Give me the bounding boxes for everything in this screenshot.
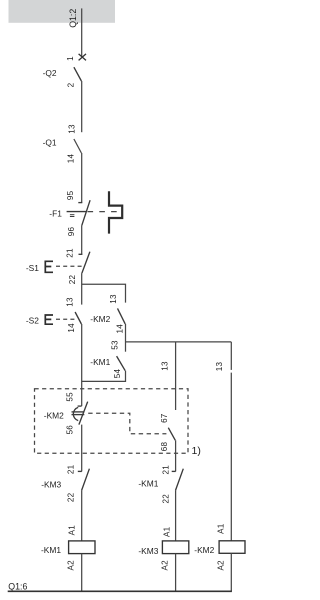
svg-text:56: 56 <box>66 425 75 435</box>
svg-text:Q1:2: Q1:2 <box>68 9 78 28</box>
wire timed contact down to KM3 NC <box>81 425 83 472</box>
wire KM1 coil to bottom rail <box>81 554 83 592</box>
stop pushbutton S1 NC contact 21-22 <box>79 252 90 273</box>
svg-text:22: 22 <box>161 494 170 504</box>
svg-text:21: 21 <box>67 464 76 474</box>
contactor coil KM1 <box>69 541 95 554</box>
wire KM3 coil to bottom rail <box>175 554 177 592</box>
svg-text:21: 21 <box>66 248 75 258</box>
svg-text:95: 95 <box>66 190 75 200</box>
svg-text:22: 22 <box>67 492 76 502</box>
svg-text:14: 14 <box>67 154 76 164</box>
svg-text:55: 55 <box>66 392 75 402</box>
svg-text:13: 13 <box>67 124 76 134</box>
svg-text:-KM1: -KM1 <box>41 545 61 555</box>
thermal relay NC contact F1 95-96 <box>67 200 91 225</box>
svg-text:67: 67 <box>160 413 169 423</box>
svg-text:A2: A2 <box>161 560 170 571</box>
start pushbutton S2 NO contact 13-14 <box>75 312 81 324</box>
contactor NC interlock KM1 21-22 <box>172 469 184 491</box>
svg-text:A2: A2 <box>67 560 76 571</box>
svg-text:22: 22 <box>68 275 77 285</box>
timed aux contact 67-68 <box>168 428 175 441</box>
plug marker X (terminal 1 of Q2) <box>79 54 86 61</box>
bottom return rail <box>8 590 232 592</box>
svg-text:-KM1: -KM1 <box>90 357 110 367</box>
svg-text:53: 53 <box>111 340 120 350</box>
timed contact KM2 55-56 <box>72 402 88 425</box>
dashed function box <box>35 389 189 454</box>
svg-text:-KM3: -KM3 <box>138 546 158 556</box>
svg-text:-F1: -F1 <box>49 208 62 218</box>
wire Q2 to Q1 <box>81 81 83 132</box>
svg-text:1: 1 <box>66 56 75 61</box>
svg-text:A1: A1 <box>163 526 172 537</box>
wire KM1 NC to KM3 coil <box>175 490 177 541</box>
dashed actuator link S2 <box>56 318 78 320</box>
wire KM2 coil to bottom rail <box>230 553 232 591</box>
breaker aux contact Q1 13-14 <box>74 139 82 153</box>
wire S2 down to timed contact (junction at 381) <box>81 324 83 406</box>
svg-text:-Q1: -Q1 <box>43 137 57 147</box>
svg-text:Q1:6: Q1:6 <box>8 581 27 591</box>
wire Q1 to F1 <box>81 153 83 203</box>
svg-text:13: 13 <box>109 294 118 304</box>
svg-text:14: 14 <box>116 324 125 334</box>
contactor coil KM2 <box>219 541 245 554</box>
svg-text:-Q2: -Q2 <box>43 68 57 78</box>
wire KM3 NC to KM1 coil <box>81 490 83 541</box>
breaker contact Q2 <box>74 67 82 81</box>
svg-text:54: 54 <box>113 369 122 379</box>
actuator E of S2 <box>45 315 53 324</box>
svg-text:A1: A1 <box>67 525 76 536</box>
dashed link F1 contact to trip element <box>88 211 121 213</box>
svg-text:21: 21 <box>161 465 170 475</box>
svg-text:-S1: -S1 <box>26 263 39 273</box>
wire branch to coil columns <box>126 341 232 343</box>
svg-text:14: 14 <box>67 323 76 333</box>
svg-text:-KM2: -KM2 <box>194 545 214 555</box>
svg-text:-KM2: -KM2 <box>44 411 64 421</box>
svg-text:96: 96 <box>67 227 76 237</box>
wire S1 to S2 with junction to seal-in branch <box>81 273 83 305</box>
wire contact 68 down to KM1 NC <box>175 440 177 471</box>
top supply rail bar (grey) <box>9 0 116 23</box>
svg-text:-KM1: -KM1 <box>138 478 158 488</box>
svg-text:13: 13 <box>215 362 224 372</box>
wire right drop to KM2 coil (with terminal gap) <box>230 342 232 370</box>
svg-text:13: 13 <box>66 297 75 307</box>
contactor coil KM3 <box>162 541 188 554</box>
dashed actuator link S1 <box>56 265 84 267</box>
svg-text:-KM2: -KM2 <box>90 314 110 324</box>
wire F1 to S1 <box>81 225 83 254</box>
svg-text:1): 1) <box>192 445 201 457</box>
wire KM2 aux to KM1 aux <box>125 324 127 352</box>
thermal trip element of F1 <box>109 191 122 233</box>
svg-text:-S2: -S2 <box>26 316 39 326</box>
contactor aux contact KM1 53-54 <box>117 356 126 371</box>
dashed mechanical link KM2 timed to contact 67-68 <box>88 413 166 434</box>
wire from Q1:2 down to plug marker <box>81 8 83 57</box>
contactor NC interlock KM3 21-22 <box>78 469 90 491</box>
svg-text:68: 68 <box>160 442 169 452</box>
svg-text:-KM3: -KM3 <box>41 480 61 490</box>
svg-text:A2: A2 <box>217 560 226 571</box>
wire junction branch to KM2 aux <box>82 284 126 302</box>
wire KM1 aux return to main line <box>82 371 126 382</box>
svg-text:13: 13 <box>161 361 170 371</box>
svg-text:2: 2 <box>66 82 75 87</box>
contactor aux contact KM2 13-14 <box>118 308 126 324</box>
actuator E of S1 <box>45 261 53 272</box>
wire middle drop to contact 67 <box>175 342 177 410</box>
svg-text:A1: A1 <box>217 523 226 534</box>
